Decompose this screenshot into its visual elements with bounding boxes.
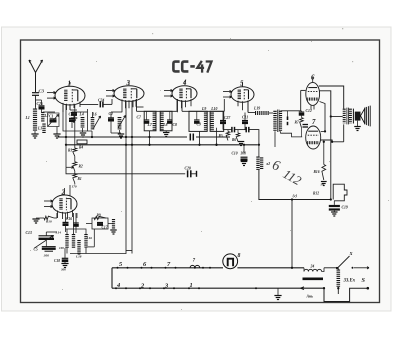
wire box down to bus: [199, 131, 201, 144]
ground under box: [165, 131, 167, 133]
coil L5: [118, 117, 122, 130]
svg-text:L2: L2: [44, 114, 49, 118]
capacitor C24: [99, 101, 101, 107]
resistor R10: [40, 217, 44, 219]
tube V5: [231, 87, 254, 103]
wires stage3: [111, 111, 122, 113]
junction dots on buses: [91, 136, 93, 138]
wire box1 down to bus: [149, 131, 151, 145]
tube V3: [114, 86, 144, 102]
antenna: [29, 60, 36, 92]
svg-text:L14: L14: [55, 231, 62, 235]
wire: [136, 106, 144, 108]
svg-text:в2: в2: [267, 162, 271, 166]
svg-text:(г): (г): [293, 193, 298, 198]
wires tube6 plate loop: [319, 86, 344, 109]
svg-text:R1: R1: [78, 177, 82, 181]
wire tube6 to tube7 verticals: [320, 102, 326, 132]
capacitor C19: [329, 205, 340, 207]
B+ vertical: [330, 117, 332, 200]
svg-text:C24: C24: [98, 99, 104, 103]
svg-text:C5: C5: [34, 248, 38, 252]
coil L18: [77, 240, 80, 255]
svg-text:C27: C27: [224, 116, 231, 120]
bus dots bottom: [115, 287, 117, 289]
tube V6 heater legs: [310, 105, 312, 109]
speaker: [352, 109, 354, 124]
wire center tap: [331, 116, 343, 118]
svg-text:R16: R16: [314, 170, 320, 174]
schematic border frame: [21, 40, 380, 303]
wire loop bottom: [70, 251, 126, 254]
bus dots top: [117, 267, 119, 269]
capacitor C25: [36, 99, 42, 101]
loop wires stage2: [63, 112, 92, 131]
wire long vertical A: [125, 101, 127, 251]
junction power: [291, 267, 293, 269]
svg-text:R3: R3: [68, 149, 72, 153]
svg-text:5: 5: [240, 81, 244, 88]
arrow on bottom bus: [301, 287, 305, 290]
svg-text:C4: C4: [69, 113, 74, 117]
svg-text:R12: R12: [313, 192, 319, 196]
svg-text:L19: L19: [253, 107, 260, 111]
wire riser: [91, 131, 93, 137]
bus left edge: [111, 268, 113, 288]
svg-text:L8: L8: [162, 123, 167, 127]
svg-text:300: 300: [240, 152, 247, 156]
coil under junction: [256, 157, 259, 171]
svg-text:L3: L3: [37, 127, 42, 131]
svg-text:100: 100: [59, 246, 64, 250]
terminals arrow: [352, 267, 354, 269]
wire plate to C24: [80, 103, 98, 106]
parallel R9 C17 box: [92, 218, 108, 229]
crossover hump fuse: [190, 265, 200, 267]
svg-text:24: 24: [310, 265, 315, 269]
ground: [56, 127, 58, 135]
svg-text:300: 300: [60, 268, 66, 272]
filament bus bottom: [112, 287, 324, 289]
ground below bus: [277, 288, 279, 295]
wire long vertical B: [131, 101, 133, 251]
svg-text:300: 300: [43, 254, 49, 258]
title CC-47: [173, 61, 211, 73]
autotransformer coil: [336, 270, 340, 288]
coil L15: [84, 234, 87, 248]
cap in loop: [287, 117, 289, 121]
wire loop right vertical: [300, 90, 302, 110]
wire to switch: [324, 267, 337, 269]
wires box: [86, 223, 92, 225]
capacitor C20b series on bus: [189, 134, 191, 141]
capacitor on osc drop: [75, 213, 77, 233]
svg-text:C19: C19: [342, 206, 348, 210]
wire: [35, 107, 37, 109]
LC box with C7 L7: [144, 111, 156, 131]
resistor R1: [73, 174, 77, 183]
svg-text:C9: C9: [197, 123, 202, 127]
svg-text:R7: R7: [295, 121, 299, 125]
capacitor C3: [32, 92, 39, 94]
capacitor C12: [299, 111, 305, 113]
cathode resistor and cap of V1: [70, 109, 77, 111]
tube V1: [55, 86, 85, 105]
electrolytic C19 outline: [333, 184, 347, 201]
wire tube3 down: [111, 99, 113, 104]
svg-text:170: 170: [72, 185, 77, 189]
resistor R7: [300, 118, 304, 128]
svg-text:S: S: [362, 277, 366, 284]
variable capacitor C1: [43, 111, 55, 113]
wire L10 to bus: [216, 128, 218, 145]
LC box with C9 L9: [189, 111, 207, 131]
wire to C20: [66, 167, 185, 174]
wires osc: [56, 213, 58, 218]
svg-text:L9: L9: [201, 107, 206, 111]
svg-text:R10: R10: [46, 220, 52, 224]
resistor R2: [73, 162, 77, 171]
pilot lamp 8: [223, 254, 238, 269]
resistor R3: [73, 148, 77, 156]
bus wire lower: [66, 144, 258, 146]
resistor R4 box: [77, 140, 87, 144]
svg-text:33.Ех: 33.Ех: [343, 279, 356, 284]
svg-text:C17: C17: [102, 226, 108, 230]
svg-text:L18: L18: [75, 255, 82, 259]
wire power feed vertical: [291, 200, 293, 269]
wire tube7 plate: [321, 140, 344, 142]
svg-text:8: 8: [238, 253, 241, 259]
pot left wire: [65, 140, 67, 167]
bus wire upper: [58, 136, 187, 138]
wire tube4 down: [176, 100, 178, 112]
ground: [34, 131, 36, 134]
svg-text:L1: L1: [25, 116, 30, 120]
svg-text:L4: L4: [79, 113, 84, 117]
coil L2: [41, 112, 44, 122]
svg-text:R2: R2: [79, 165, 83, 169]
ground: [238, 141, 241, 143]
svg-text:C1: C1: [49, 115, 54, 119]
LC box with L8 C8: [160, 111, 172, 131]
svg-text:C25: C25: [37, 102, 43, 106]
ground: [36, 217, 40, 219]
svg-text:R4: R4: [79, 146, 83, 150]
svg-text:C16: C16: [66, 217, 72, 221]
variable cap arrow: [118, 116, 126, 129]
wire tube5 down: [247, 102, 249, 113]
wire with caps C13b C14: [223, 129, 232, 131]
wire riser to tube5: [223, 99, 225, 111]
svg-text:R9: R9: [97, 214, 101, 218]
coil L3: [42, 124, 45, 134]
svg-text:L16: L16: [86, 236, 93, 240]
wire tube1 leads down: [62, 105, 64, 112]
variable cap C6 arrow: [93, 116, 101, 129]
svg-text:R6: R6: [232, 138, 236, 142]
svg-text:C12: C12: [306, 109, 312, 113]
wire riser stage: [243, 145, 245, 153]
coil L1: [33, 109, 37, 132]
svg-text:C3: C3: [39, 89, 45, 94]
tube V4: [172, 86, 197, 102]
svg-text:C8: C8: [173, 123, 178, 127]
wire: [65, 225, 67, 232]
svg-text:L10: L10: [210, 107, 217, 111]
svg-text:C10: C10: [232, 152, 238, 156]
loop below bus: [324, 288, 368, 301]
wire down and right: [259, 170, 331, 200]
scan speckles: [152, 33, 153, 34]
ground: [82, 128, 84, 132]
svg-text:Ань: Ань: [306, 295, 314, 299]
wire loop right of IFT: [281, 110, 302, 112]
IF transformer T2: [273, 111, 276, 131]
wire coupling t4-t5: [182, 110, 224, 112]
tube V2: [52, 195, 77, 213]
wire coupling t3-t4: [137, 110, 178, 112]
svg-text:C13: C13: [26, 231, 32, 235]
svg-text:1: 1: [190, 282, 193, 289]
wire risers from tube1 to pot: [65, 105, 67, 140]
svg-text:7: 7: [312, 119, 316, 126]
ground speaker: [357, 121, 359, 127]
grid bars tube7: [303, 124, 309, 126]
LC box with L10: [210, 111, 224, 131]
filament bus top: [112, 267, 223, 269]
svg-text:3: 3: [126, 80, 131, 87]
coil L13: [72, 234, 75, 248]
tube V6: [306, 82, 320, 105]
output transformer T3: [343, 109, 346, 124]
svg-text:C18: C18: [54, 259, 60, 263]
svg-text:C20: C20: [185, 167, 191, 171]
right small coil to ground: [108, 223, 114, 225]
switch X: [337, 256, 350, 269]
wiper arrow: [66, 166, 74, 168]
tube V7: [306, 126, 321, 149]
coil L6: [91, 117, 95, 130]
loop bottom wire: [281, 131, 303, 137]
svg-text:4: 4: [182, 80, 187, 87]
